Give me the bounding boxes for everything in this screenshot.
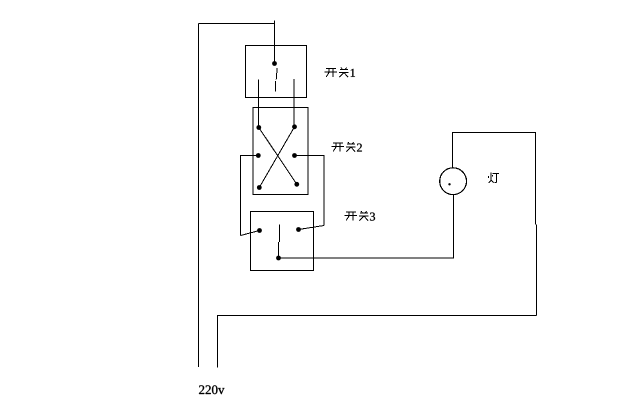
wire: S2 mid-right terminal out right and down [295,156,325,226]
switch S3 left terminal dot [257,228,262,233]
wire: right drop lower segment (1px jog) [536,225,538,316]
wire: lamp top up and right [453,133,536,225]
switch S1 lever upper segment [276,68,277,80]
switch S1 lever lower segment [274,81,276,92]
switch S2 mid-left terminal dot [256,153,261,158]
wire: S1 left throw to S2 top-left terminal [258,80,260,128]
label 灯 [489,173,499,183]
switch S2 crossover wire TL-BR [259,128,297,185]
label 开关2 [332,142,362,152]
switch S1 (开关1) body [246,46,307,98]
wire: top horizontal from left lead to S1 [199,23,275,25]
switch S2 bottom-right terminal dot [294,182,299,187]
wire: 220v left lead vertical [198,24,200,368]
switch S2 (开关2) body [253,108,308,195]
label 开关3 [345,211,375,221]
wire: S3 output to lamp bottom [279,195,454,258]
switch S2 top-right terminal dot [292,124,297,129]
switch S3 lever upper segment [279,225,281,243]
lamp DS1 (灯) bulb circle [440,168,467,195]
switch S2 top-left terminal dot [256,125,261,130]
label 开关1 [325,68,355,78]
switch S2 crossover wire TR-BL [259,127,294,188]
wire: drop into switch S1 pole [274,21,276,64]
wire: S2 mid-left terminal out left and down [241,156,259,236]
switch S1 pole junction dot [272,61,277,66]
wire: S1 right throw to S2 top-right terminal [293,79,295,127]
switch S3 lever lower segment [278,242,280,258]
lamp DS1 filament dot [448,183,450,185]
wire: slant into S3 right terminal [299,226,325,230]
switch S3 right terminal dot [296,227,301,232]
wire: bottom return to 220v right lead [218,316,537,368]
switch S2 mid-right terminal dot [292,153,297,158]
switch S3 output terminal dot [276,256,281,261]
wire: slant into S3 left terminal [241,231,260,236]
switch S2 bottom-left terminal dot [257,185,262,190]
value label 220v [199,385,204,394]
switch S3 (开关3) body [251,212,314,271]
